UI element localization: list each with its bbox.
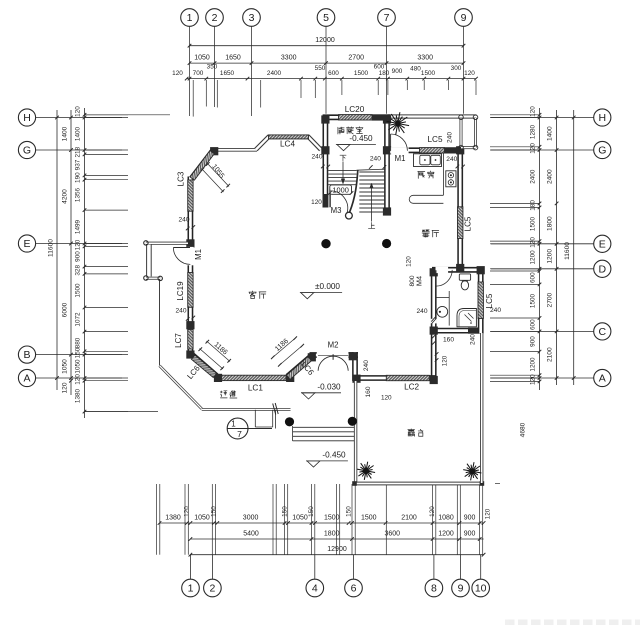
svg-text:120: 120: [75, 239, 82, 250]
wall bathroom left x8: [431, 270, 437, 331]
column: [186, 350, 194, 358]
svg-text:3300: 3300: [417, 55, 433, 62]
svg-text:900: 900: [75, 251, 82, 262]
svg-text:2: 2: [212, 12, 218, 24]
svg-text:M1: M1: [395, 154, 406, 163]
svg-text:M2: M2: [328, 341, 339, 350]
bottom axis bubbles 1 2 4 6 8 9 10: [182, 579, 200, 597]
svg-text:120: 120: [441, 355, 448, 366]
svg-text:120: 120: [311, 199, 322, 206]
svg-text:160: 160: [443, 337, 454, 344]
svg-text:1400: 1400: [75, 126, 82, 141]
svg-text:D: D: [599, 263, 607, 275]
svg-text:A: A: [599, 373, 606, 385]
svg-text:E: E: [23, 238, 30, 250]
svg-text:1200: 1200: [530, 357, 537, 372]
diagonal wall SW LC6: [192, 355, 217, 376]
top extension lines: [192, 80, 194, 117]
stair down arrow: [342, 162, 344, 183]
left total dimension 11600: [56, 110, 58, 390]
column: [352, 375, 360, 383]
svg-text:H: H: [23, 112, 31, 124]
svg-text:240: 240: [370, 156, 381, 163]
svg-text:1500: 1500: [361, 514, 377, 521]
svg-text:240: 240: [311, 154, 322, 161]
plant star terrace left: [357, 462, 375, 480]
terrace bottom edge: [354, 482, 483, 486]
svg-text:1500: 1500: [530, 293, 537, 308]
svg-text:M3: M3: [331, 206, 342, 215]
door M1 kitchen north: [390, 147, 408, 153]
svg-text:-0.450: -0.450: [349, 134, 373, 143]
svg-text:1800: 1800: [547, 216, 554, 231]
svg-text:4: 4: [312, 583, 318, 595]
wall bathroom bottom C axis: [431, 328, 481, 334]
svg-text:1500: 1500: [324, 514, 340, 521]
door M2 double: [317, 352, 349, 358]
svg-text:1400: 1400: [547, 126, 554, 141]
svg-text:600: 600: [328, 70, 339, 77]
stair 240 tick arrows: [369, 165, 373, 169]
wall dining east x9: [457, 147, 463, 270]
window LC1: [222, 375, 287, 380]
wall black segment top right of LC20: [372, 114, 390, 120]
svg-text:190: 190: [75, 172, 82, 183]
window LC20: [339, 115, 373, 120]
right extension lines: [490, 114, 540, 116]
column bathroom bottom-right wide: [468, 328, 481, 334]
wall G axis kitchen north: [383, 147, 463, 153]
window LC7: [188, 330, 193, 350]
section index mark 7: [227, 418, 248, 439]
entry steps: [292, 426, 294, 441]
svg-text:240: 240: [416, 308, 427, 315]
wall black segment kitchen north: [444, 147, 463, 153]
column: [456, 146, 464, 154]
svg-text:5400: 5400: [243, 530, 259, 537]
svg-text:12000: 12000: [315, 37, 335, 44]
room label terrace: [408, 429, 415, 436]
svg-text:600: 600: [530, 272, 537, 283]
entry porch west slab: [146, 242, 188, 245]
svg-text:10: 10: [475, 583, 487, 595]
door M1 west wall: [187, 247, 193, 265]
wall x6 between B and A: [352, 352, 358, 381]
svg-text:11600: 11600: [564, 242, 571, 260]
right dimension column 1400 2400 1800 1200 2700 2100: [556, 110, 558, 385]
svg-text:1050: 1050: [194, 514, 210, 521]
svg-text:328: 328: [75, 265, 82, 276]
stair rail curve: [350, 170, 358, 212]
svg-text:B: B: [23, 349, 30, 361]
room label kitchen: [418, 172, 425, 179]
column: [349, 352, 357, 360]
left wall 240 tick arrows: [186, 227, 190, 231]
svg-text:LC19: LC19: [176, 281, 185, 301]
svg-text:1: 1: [188, 583, 194, 595]
wall bay A axis LC1: [215, 375, 294, 381]
svg-text:240: 240: [446, 156, 457, 163]
svg-text:550: 550: [315, 65, 326, 72]
svg-text:3: 3: [249, 12, 255, 24]
svg-text:9: 9: [461, 12, 467, 24]
svg-text:LC3: LC3: [177, 171, 186, 186]
svg-text:1080: 1080: [438, 514, 454, 521]
bottom extension lines: [156, 484, 158, 555]
svg-text:1: 1: [231, 420, 236, 429]
svg-text:LC5: LC5: [463, 216, 472, 231]
column: [210, 147, 218, 155]
svg-text:-0.450: -0.450: [322, 451, 346, 460]
svg-text:4680: 4680: [520, 422, 527, 437]
wall A axis LC2: [355, 375, 437, 381]
svg-text:2100: 2100: [401, 514, 417, 521]
bottom dimension row 5400 1800 3600 1200 900: [190, 538, 483, 540]
svg-text:LC7: LC7: [174, 333, 183, 348]
svg-text:12900: 12900: [327, 546, 347, 553]
svg-text:M1: M1: [194, 249, 203, 260]
svg-text:1280: 1280: [530, 124, 537, 139]
svg-text:120: 120: [62, 382, 69, 393]
svg-text:6000: 6000: [62, 302, 69, 317]
svg-text:LC20: LC20: [345, 105, 365, 114]
svg-text:LC1: LC1: [248, 383, 263, 392]
column: [430, 376, 438, 384]
svg-text:G: G: [23, 145, 31, 157]
svg-text:LC2: LC2: [404, 383, 419, 392]
wall bathroom right east: [478, 267, 484, 333]
shower tray: [457, 309, 476, 327]
svg-text:1000: 1000: [332, 185, 348, 194]
svg-text:120: 120: [172, 70, 183, 77]
svg-text:1380: 1380: [75, 388, 82, 403]
column: [430, 327, 438, 335]
room label storage: [338, 127, 344, 134]
wall stair right x7: [384, 116, 390, 215]
svg-text:G: G: [598, 145, 606, 157]
svg-text:120: 120: [406, 256, 413, 267]
wall vestibule east x8: [431, 333, 437, 378]
svg-text:180: 180: [530, 200, 537, 211]
svg-text:150: 150: [345, 506, 352, 517]
svg-text:150: 150: [75, 347, 82, 358]
left fine dimension column 120 1400 218 937 190 1356 1499 120 900 328 1500 1072 880 150 1050 120 1380: [84, 108, 86, 418]
top dimension total 12000: [190, 45, 464, 47]
column: [430, 268, 438, 276]
svg-text:600: 600: [530, 319, 537, 330]
svg-text:240: 240: [175, 308, 186, 315]
svg-text:LC4: LC4: [280, 139, 295, 148]
svg-text:3300: 3300: [281, 55, 297, 62]
svg-text:120: 120: [75, 374, 82, 385]
terrace east edge: [480, 333, 483, 483]
svg-text:1050: 1050: [292, 514, 308, 521]
column: [477, 266, 485, 274]
terrace west edge: [354, 381, 357, 485]
kitchen stove: [446, 171, 456, 187]
window LC5 bathroom east: [478, 282, 483, 319]
bottom dimension row 1380 1050 3000 1050 1500 1500 2100 1080 900: [160, 522, 484, 524]
svg-text:1356: 1356: [75, 187, 82, 202]
svg-text:120: 120: [530, 237, 537, 248]
stair left flight treads: [328, 170, 356, 172]
svg-text:1072: 1072: [75, 312, 82, 327]
svg-text:1500: 1500: [421, 70, 436, 77]
column: [456, 264, 464, 272]
stair door jamb black: [323, 194, 329, 208]
column: [186, 239, 194, 247]
stair up arrow: [371, 185, 373, 222]
walkway break mark: [273, 404, 276, 415]
column: [383, 115, 391, 123]
svg-text:1380: 1380: [165, 514, 181, 521]
svg-text:1050: 1050: [194, 55, 210, 62]
svg-text:1050: 1050: [62, 359, 69, 374]
svg-text:880: 880: [75, 337, 82, 348]
svg-text:H: H: [599, 112, 607, 124]
walkway outer edge: [159, 280, 161, 366]
svg-text:180: 180: [379, 70, 390, 77]
wall left west: [187, 177, 193, 354]
svg-text:11600: 11600: [48, 239, 55, 257]
wall G axis living room north thin: [213, 148, 257, 152]
svg-text:800: 800: [409, 275, 416, 286]
toilet: [459, 274, 470, 280]
plant star terrace right: [463, 462, 481, 480]
svg-text:1650: 1650: [220, 70, 235, 77]
window LC5 dining east: [458, 207, 463, 239]
wall bathroom top D axis: [432, 267, 481, 273]
door M4 bathroom: [436, 267, 449, 273]
door M3 stair: [329, 194, 331, 208]
svg-text:2400: 2400: [530, 169, 537, 184]
x8 wall dim tick arrows: [432, 335, 436, 339]
window LC19: [188, 273, 193, 308]
svg-text:1050: 1050: [75, 359, 82, 374]
wall B axis M2: [310, 352, 359, 358]
column: [383, 146, 391, 154]
right fine dimension column 120 1280 2400 180 1500 1200 600 1500 600 900 1200 120: [539, 108, 541, 390]
svg-text:2400: 2400: [547, 169, 554, 184]
kitchen east wall tick arrows: [456, 165, 460, 169]
diagonal wall SE LC6: [288, 356, 312, 377]
svg-text:3600: 3600: [385, 530, 401, 537]
left axis bubbles H G E B A: [18, 109, 35, 126]
right axis bubbles H G E D C A: [594, 109, 611, 126]
svg-text:E: E: [599, 238, 606, 250]
svg-text:1500: 1500: [354, 70, 369, 77]
svg-text:2700: 2700: [547, 292, 554, 307]
top dimension row 120 700 1650 2400 600 1500 900 480 1500 120: [187, 78, 476, 80]
svg-text:2400: 2400: [267, 70, 282, 77]
svg-text:1200: 1200: [438, 530, 454, 537]
bathroom west wall break: [431, 319, 437, 324]
svg-text:900: 900: [392, 68, 403, 75]
stair right flight treads: [359, 171, 384, 173]
svg-text:±0.000: ±0.000: [315, 282, 340, 291]
window LC5 kitchen north: [420, 148, 445, 153]
top dimension row 1050 1650 3300 2700 3300: [190, 62, 464, 64]
svg-text:218: 218: [75, 146, 82, 157]
column: [383, 207, 391, 215]
wall H axis porch edge top right: [388, 114, 477, 118]
right total dimension 11600: [573, 110, 575, 385]
column: [214, 374, 222, 382]
svg-text:350: 350: [207, 63, 218, 70]
svg-text:1650: 1650: [225, 55, 241, 62]
window LC3 diagonal: [190, 151, 214, 181]
svg-text:600: 600: [374, 64, 385, 71]
stair 1000 dimension box: [330, 185, 352, 194]
svg-text:A: A: [23, 373, 30, 385]
svg-text:5: 5: [323, 12, 329, 24]
bay window LC4 walls: [256, 137, 321, 150]
svg-text:8: 8: [431, 583, 437, 595]
wall storage left x5: [322, 116, 328, 208]
svg-text:120: 120: [530, 374, 537, 385]
svg-text:1500: 1500: [530, 216, 537, 231]
room label dining: [422, 230, 429, 237]
bathroom vanity and basin: [448, 291, 450, 326]
watermark bottom right: [505, 620, 640, 626]
svg-text:1800: 1800: [324, 530, 340, 537]
top right porch rail: [460, 119, 463, 147]
diagonal wall NW LC3: [192, 151, 213, 178]
svg-text:120: 120: [381, 394, 392, 401]
svg-text:120: 120: [530, 143, 537, 154]
svg-text:1200: 1200: [530, 250, 537, 265]
svg-text:900: 900: [530, 336, 537, 347]
wall top H axis storage: [323, 114, 390, 120]
plant star top: [387, 112, 410, 135]
column: [321, 115, 329, 123]
svg-text:120: 120: [485, 508, 492, 519]
window LC6 right: [287, 357, 312, 380]
svg-text:480: 480: [410, 66, 421, 73]
svg-text:2100: 2100: [547, 347, 554, 362]
bottom dimension total 12900: [190, 554, 483, 556]
porch round column right: [348, 417, 357, 426]
column: [308, 353, 316, 361]
svg-text:7: 7: [237, 429, 242, 439]
svg-text:120: 120: [75, 106, 82, 117]
svg-text:120: 120: [464, 70, 475, 77]
svg-text:160: 160: [365, 386, 372, 397]
svg-text:-0.030: -0.030: [317, 382, 341, 391]
svg-text:900: 900: [464, 530, 476, 537]
porch round column left: [285, 417, 294, 426]
kitchen counter edge: [442, 153, 444, 195]
entry landing rect: [254, 410, 256, 427]
column: [186, 321, 194, 329]
svg-text:3000: 3000: [243, 514, 259, 521]
svg-text:1200: 1200: [547, 249, 554, 264]
room label living room: [249, 291, 256, 299]
column: [321, 146, 329, 154]
svg-text:M4: M4: [415, 276, 424, 286]
svg-text:1499: 1499: [75, 219, 82, 234]
svg-text:4200: 4200: [62, 189, 69, 204]
round column E7: [382, 239, 391, 248]
svg-text:240: 240: [446, 132, 453, 143]
svg-text:900: 900: [464, 514, 476, 521]
top axis bubbles 1 2 3 5 7 9: [181, 9, 199, 27]
kitchen sink counter: [414, 154, 442, 167]
column: [286, 374, 294, 382]
svg-text:240: 240: [470, 334, 477, 345]
svg-text:120: 120: [530, 106, 537, 117]
svg-text:1400: 1400: [62, 126, 69, 141]
svg-text:2700: 2700: [348, 55, 364, 62]
svg-text:700: 700: [193, 70, 204, 77]
svg-text:LC5: LC5: [427, 135, 442, 144]
svg-text:240: 240: [490, 307, 501, 314]
svg-text:1: 1: [187, 12, 193, 24]
svg-text:9: 9: [458, 583, 464, 595]
room label walkway: [220, 391, 227, 398]
window LC2: [386, 375, 429, 380]
svg-text:150: 150: [211, 506, 218, 517]
svg-text:6: 6: [351, 583, 357, 595]
svg-text:240: 240: [363, 360, 370, 371]
window LC3 vertical part: [188, 180, 193, 211]
svg-text:7: 7: [384, 12, 390, 24]
svg-text:937: 937: [75, 159, 82, 170]
svg-text:C: C: [599, 326, 607, 338]
left extension lines: [85, 114, 129, 116]
round column E5: [321, 239, 330, 248]
svg-text:1500: 1500: [75, 283, 82, 298]
svg-text:240: 240: [178, 217, 189, 224]
svg-text:2: 2: [209, 583, 215, 595]
svg-text:300: 300: [451, 65, 462, 72]
window LC6 left: [191, 355, 216, 377]
left dimension column 1400 4200 6000 1050 120: [70, 110, 72, 395]
